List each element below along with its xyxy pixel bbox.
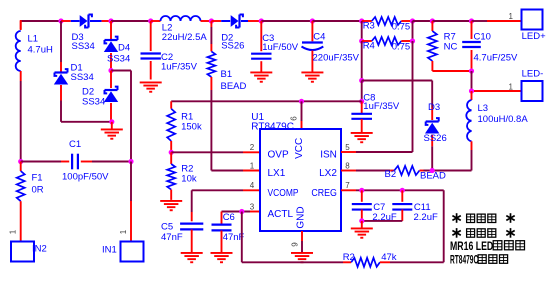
diode D2 (SS34, vertical) xyxy=(104,71,118,122)
svg-text:RT8479C: RT8479C xyxy=(251,121,294,132)
svg-text:SS34: SS34 xyxy=(71,72,94,83)
svg-text:B1: B1 xyxy=(221,69,233,80)
diode D1 (SS34, vertical) xyxy=(54,21,68,101)
capacitor C10 (4.7uF/25V) xyxy=(462,21,481,71)
svg-text:C5: C5 xyxy=(161,222,173,233)
label L1 value 4.7uH xyxy=(28,45,53,56)
wire: CREG corner down to bottom rail xyxy=(443,190,445,262)
svg-text:C10: C10 xyxy=(474,32,491,43)
svg-text:R3: R3 xyxy=(363,21,375,32)
wire: node M right and down to C1 right node xyxy=(111,71,131,162)
pin number 4 (VCOMP) xyxy=(250,181,255,190)
wire: C11 bottom to C7 bottom xyxy=(362,220,403,222)
svg-text:ISN: ISN xyxy=(320,150,337,161)
wire: VCC tap down to U1 pin 6 xyxy=(301,101,303,129)
svg-text:47nF: 47nF xyxy=(161,232,183,243)
pin name ISN xyxy=(320,150,337,161)
node K junction (R4 left) xyxy=(359,38,364,43)
diode D3 (SS26, vertical) xyxy=(425,81,439,171)
svg-text:1: 1 xyxy=(119,229,128,234)
node D junction (L2/D2/B1) xyxy=(209,18,214,23)
pin number 3 (ACTL) xyxy=(250,202,255,211)
wire: rail R7 to C10 xyxy=(432,20,471,22)
pin number 8 (LX2) xyxy=(345,161,350,170)
annotation line 4 (RT8479C circuit) xyxy=(450,255,508,267)
annotation line 2 (* wu shan shuo *) xyxy=(452,228,514,238)
svg-text:0.75: 0.75 xyxy=(392,42,411,53)
svg-text:SS34: SS34 xyxy=(107,54,130,65)
svg-text:B2: B2 xyxy=(385,169,397,180)
label R2 value 47k xyxy=(381,252,397,263)
pin number 1 (LED-) xyxy=(509,83,514,92)
svg-text:ACTL: ACTL xyxy=(268,209,294,220)
wire: LX2 wire from U1 xyxy=(341,170,390,172)
label D1 value SS34 xyxy=(71,72,94,83)
svg-text:SS34: SS34 xyxy=(72,41,95,52)
svg-text:D4: D4 xyxy=(118,42,130,53)
wire: C7 bottom stub to ground xyxy=(361,221,363,228)
svg-text:VCOMP: VCOMP xyxy=(268,188,299,199)
pin number 1 (IN2) xyxy=(8,229,17,234)
svg-text:L3: L3 xyxy=(478,103,489,114)
svg-text:SS26: SS26 xyxy=(424,133,447,144)
connector IN1 terminal xyxy=(121,242,144,262)
ground (input bridge) xyxy=(101,129,123,140)
label C1 xyxy=(69,139,81,150)
resistor R4 (0.75, horizontal) xyxy=(362,37,413,45)
diode D3 (SS34, horizontal) xyxy=(61,15,111,28)
svg-text:5: 5 xyxy=(345,143,350,152)
node F junction (C4 tap) xyxy=(310,18,315,23)
wire: R4 left down to node Q xyxy=(361,41,363,81)
label R4 value 0.75 xyxy=(392,42,411,53)
label R2 value 10k xyxy=(181,174,197,185)
node P junction (LED- / L3 top) xyxy=(469,88,474,93)
resistor R2 (47k, horizontal) xyxy=(343,258,390,267)
svg-text:MR16 LED: MR16 LED xyxy=(450,241,493,253)
node Q junction (D3 branch tap) xyxy=(359,78,364,83)
wire: rail R3 to R7 xyxy=(413,20,433,22)
label C2 value 1uF/35V xyxy=(161,62,198,73)
label U1 part RT8479C xyxy=(251,121,294,132)
label C7 xyxy=(373,202,385,213)
label L3 xyxy=(478,103,489,114)
label C4 value 220uF/35V xyxy=(313,53,360,64)
wire: node Q down to node R xyxy=(361,81,363,102)
label D3 xyxy=(72,32,84,43)
node T junction (OVP / R1 / R2) xyxy=(169,150,174,155)
svg-text:2: 2 xyxy=(250,143,255,152)
label B1 xyxy=(221,69,233,80)
label L3 value 100uH/0.8A xyxy=(478,114,529,125)
pin number 1 (LED+) xyxy=(509,12,514,21)
ground (C2) xyxy=(140,82,162,93)
wire: OVP wire to U1 xyxy=(171,151,260,153)
label LED- xyxy=(522,69,544,80)
label F1 xyxy=(32,172,43,183)
ground (R2) xyxy=(160,200,182,211)
svg-text:F1: F1 xyxy=(32,172,43,183)
node Z junction (C1 left) xyxy=(18,159,23,164)
resistor R1 (150k, vertical) xyxy=(167,101,175,152)
svg-text:1: 1 xyxy=(8,229,17,234)
svg-text:LX2: LX2 xyxy=(319,168,337,179)
pin number 9 (GND) xyxy=(291,242,300,247)
wire: D1 bottom to ground node xyxy=(61,101,112,122)
diode D4 (SS34, vertical) xyxy=(104,21,118,71)
label R4 xyxy=(363,40,375,51)
svg-text:SS34: SS34 xyxy=(82,96,105,107)
ferrite bead B1 xyxy=(207,21,215,90)
label F1 value 0R xyxy=(32,184,44,195)
annotation line 3 (MR16 LED driver) xyxy=(450,241,525,253)
label C8 value 1uF/35V xyxy=(363,101,400,112)
svg-text:IN2: IN2 xyxy=(32,244,47,255)
node I junction (R7 top) xyxy=(430,18,435,23)
svg-text:1uF/50V: 1uF/50V xyxy=(262,42,299,53)
ground (C4) xyxy=(301,72,323,83)
wire: top rail left from L1 corner to node A xyxy=(21,20,61,29)
node L junction (R4 right) xyxy=(410,38,415,43)
wire: C1 right down to IN1 xyxy=(130,162,132,242)
svg-text:9: 9 xyxy=(291,242,300,247)
inductor L2 (22uH/2.5A) xyxy=(151,16,212,21)
node H junction (R3 right) xyxy=(410,18,415,23)
label D3 (SS26) xyxy=(428,102,440,113)
pin name VCOMP xyxy=(268,188,299,199)
node G junction (R3 left) xyxy=(359,18,364,23)
wire: ISN wire from R4 right xyxy=(341,41,413,152)
node Y junction (C7 bottom) xyxy=(359,218,364,223)
svg-text:0.75: 0.75 xyxy=(392,22,411,33)
pin number 5 (ISN) xyxy=(345,143,350,152)
label L2 xyxy=(162,23,173,34)
pin name LX1 xyxy=(268,168,286,179)
svg-text:VCC: VCC xyxy=(294,138,305,159)
wire: ACTL wire to U1 xyxy=(222,211,261,213)
svg-text:BEAD: BEAD xyxy=(221,81,247,92)
resistor R2 (10k, vertical) xyxy=(167,152,175,200)
wire: B1 bottom down to LX1 corner xyxy=(210,90,212,171)
node J junction (C10 top) xyxy=(469,18,474,23)
label B2 xyxy=(385,169,397,180)
svg-text:LX1: LX1 xyxy=(268,168,286,179)
node M junction (D4 bottom / D2 top) xyxy=(108,68,113,73)
wire: R3 right down to R4 right xyxy=(412,21,414,41)
svg-text:1uF/35V: 1uF/35V xyxy=(363,101,400,112)
label C11 value 2.2uF xyxy=(414,212,438,223)
node C junction (C2 tap) xyxy=(148,18,153,23)
svg-text:150k: 150k xyxy=(181,122,202,133)
label L2 value 22uH/2.5A xyxy=(162,32,208,43)
connector LED+ terminal xyxy=(522,10,543,30)
svg-text:R4: R4 xyxy=(363,40,375,51)
label C4 xyxy=(313,32,325,43)
svg-text:NC: NC xyxy=(444,42,458,53)
inductor L3 (100uH/0.8A) xyxy=(466,91,471,150)
label IN1 xyxy=(102,244,117,255)
svg-text:D3: D3 xyxy=(428,102,440,113)
svg-text:100pF/50V: 100pF/50V xyxy=(62,172,109,183)
node N junction (D1/D2 ground) xyxy=(109,119,114,124)
diode D2 (SS26, horizontal) xyxy=(211,15,261,28)
node A junction (L1/D1/D3 top) xyxy=(58,18,63,23)
label C8 xyxy=(363,92,375,103)
pin number 1 (LX1) xyxy=(250,161,255,170)
svg-text:10k: 10k xyxy=(181,174,197,185)
svg-text:7: 7 xyxy=(345,181,350,190)
capacitor C4 (220uF/35V, polarized) xyxy=(302,21,324,72)
capacitor C11 (2.2uF) xyxy=(392,190,412,221)
wire: rail C4 to R3 xyxy=(312,20,361,22)
pin number 1 (IN1) xyxy=(119,229,128,234)
svg-text:C1: C1 xyxy=(69,139,81,150)
svg-text:2.2uF: 2.2uF xyxy=(414,212,438,223)
svg-text:L1: L1 xyxy=(28,34,39,45)
label C3 value 1uF/50V xyxy=(262,42,299,53)
wire: rail C3 to C4 xyxy=(261,20,312,22)
wire: VCOMP wire to U1 xyxy=(192,189,260,191)
wire: CREG wire from U1 xyxy=(341,189,444,191)
wire: ACTL node down to bottom rail xyxy=(241,212,243,263)
wire: node O down to LED- node xyxy=(471,71,473,91)
wire: U1 GND pin down xyxy=(301,231,303,252)
op-amp U1 RT8479C body xyxy=(260,129,341,231)
label C2 xyxy=(161,52,173,63)
svg-text:RT8479C: RT8479C xyxy=(450,255,478,267)
label C10 value 4.7uF/25V xyxy=(474,53,518,64)
svg-text:4: 4 xyxy=(250,181,255,190)
wire: L3 bottom to LX2 line xyxy=(471,150,473,171)
node B junction (D3/D4 top) xyxy=(108,18,113,23)
svg-text:C6: C6 xyxy=(223,212,235,223)
svg-text:4.7uF/25V: 4.7uF/25V xyxy=(474,53,518,64)
ground (C8) xyxy=(351,132,373,143)
label R1 value 150k xyxy=(181,122,202,133)
capacitor C8 (1uF/35V) xyxy=(351,101,372,132)
svg-text:100uH/0.8A: 100uH/0.8A xyxy=(478,114,529,125)
wire: LX1 wire to U1 xyxy=(211,170,260,172)
label C5 value 47nF xyxy=(161,232,183,243)
ground (C5) xyxy=(181,252,203,263)
svg-text:LED+: LED+ xyxy=(522,31,546,42)
pin name ACTL xyxy=(268,209,294,220)
svg-text:1uF/35V: 1uF/35V xyxy=(161,62,198,73)
label C5 xyxy=(161,222,173,233)
capacitor C5 (47nF) xyxy=(180,190,203,252)
label R3 xyxy=(363,21,375,32)
svg-text:4.7uH: 4.7uH xyxy=(28,45,53,56)
pin number 2 (OVP) xyxy=(250,143,255,152)
pin number 7 (CREG) xyxy=(345,181,350,190)
wire: VCC rail from R1 top to node R xyxy=(171,100,362,102)
svg-text:1: 1 xyxy=(509,12,514,21)
label D2 value SS34 xyxy=(82,96,105,107)
svg-text:R2: R2 xyxy=(343,252,355,263)
label R1 xyxy=(181,111,193,122)
connector LED- terminal xyxy=(522,81,543,101)
node X junction (C11 top) xyxy=(400,188,405,193)
svg-text:47k: 47k xyxy=(381,252,397,263)
label IN2 xyxy=(32,244,47,255)
wire: rail node B to L2 xyxy=(111,20,151,22)
svg-text:6: 6 xyxy=(290,116,299,121)
label C6 xyxy=(223,212,235,223)
capacitor C1 (100pF/50V) xyxy=(21,154,131,170)
wire: L1 bottom down to C1 left node xyxy=(20,81,22,162)
label D2 value SS26 xyxy=(221,41,244,52)
capacitor C7 (2.2uF) xyxy=(352,190,372,221)
label R2 (10k) xyxy=(181,164,193,175)
svg-text:LED-: LED- xyxy=(522,69,544,80)
label R2 (47k) xyxy=(343,252,355,263)
label D4 xyxy=(118,42,130,53)
wire: bottom rail right section xyxy=(390,261,444,263)
node E junction (C3 tap) xyxy=(259,18,264,23)
capacitor C6 (47nF) xyxy=(212,212,232,253)
ground (C6) xyxy=(211,252,233,263)
label B1 value BEAD xyxy=(221,81,247,92)
svg-text:1: 1 xyxy=(250,161,255,170)
pin name GND xyxy=(296,206,307,228)
fuse F1 (0R) xyxy=(17,162,25,242)
label C11 xyxy=(414,202,431,213)
svg-text:0R: 0R xyxy=(32,184,44,195)
label C3 xyxy=(262,33,274,44)
label C6 value 47nF xyxy=(223,232,245,243)
node S junction (VCC pin tap) xyxy=(299,99,304,104)
wire: node N stub to ground xyxy=(111,122,113,129)
node O junction (R7/C10 bottom) xyxy=(469,68,474,73)
label B2 value BEAD xyxy=(420,171,446,182)
resistor R3 (0.75, horizontal) xyxy=(362,17,413,25)
node AA junction (C1 right) xyxy=(128,159,133,164)
svg-text:OVP: OVP xyxy=(268,150,289,161)
pin name VCC xyxy=(294,138,305,159)
svg-text:220uF/35V: 220uF/35V xyxy=(313,53,360,64)
label D3 value SS26 xyxy=(424,133,447,144)
ground (C3) xyxy=(250,72,272,83)
label C7 value 2.2uF xyxy=(372,212,396,223)
node W junction (C7 top) xyxy=(359,188,364,193)
wire: LED- pin xyxy=(474,90,522,92)
resistor R7 (NC, vertical) xyxy=(428,21,437,71)
wire: bottom rail left section xyxy=(242,261,343,263)
svg-text:GND: GND xyxy=(296,206,307,228)
wire: R7 bottom to C10 bottom xyxy=(432,70,471,72)
capacitor C3 (1uF/50V) xyxy=(251,21,271,72)
svg-text:SS26: SS26 xyxy=(221,41,244,52)
pin number 6 (VCC) xyxy=(290,116,299,121)
label L1 xyxy=(28,34,39,45)
label LED+ xyxy=(522,31,546,42)
label U1 xyxy=(251,112,264,123)
ground (C7/C11) xyxy=(351,228,373,239)
svg-text:C4: C4 xyxy=(313,32,325,43)
wire: R3 left down to R4 left xyxy=(361,21,363,41)
node V junction (D3 bottom / LX2) xyxy=(430,168,435,173)
ferrite bead B2 xyxy=(390,166,423,175)
connector IN2 terminal xyxy=(11,242,34,262)
pin name OVP xyxy=(268,150,289,161)
label D4 value SS34 xyxy=(107,54,130,65)
inductor L1 (4.7uH) xyxy=(16,21,21,81)
label R7 value NC xyxy=(444,42,458,53)
ground (U1 GND) xyxy=(291,252,313,263)
label D2 xyxy=(82,87,94,98)
label D2 xyxy=(221,32,233,43)
svg-text:3: 3 xyxy=(250,202,255,211)
svg-text:CREG: CREG xyxy=(311,188,337,199)
capacitor C2 (1uF/35V) xyxy=(141,21,161,80)
label D1 xyxy=(71,62,83,73)
label R7 xyxy=(444,32,456,43)
svg-text:1: 1 xyxy=(509,83,514,92)
pin name LX2 xyxy=(319,168,337,179)
wire: node Q right to D3 top xyxy=(362,80,433,82)
svg-text:IN1: IN1 xyxy=(102,244,117,255)
svg-text:8: 8 xyxy=(345,161,350,170)
pin name CREG xyxy=(311,188,337,199)
node R junction (VCC / C8) xyxy=(359,99,364,104)
label C10 xyxy=(474,32,491,43)
label R3 value 0.75 xyxy=(392,22,411,33)
wire: rail to LED+ pin xyxy=(472,20,522,22)
label D3 value SS34 xyxy=(72,41,95,52)
annotation line 1 (* quan jian rong *) xyxy=(452,213,514,223)
wire: B2 to D3/L3 xyxy=(424,170,472,172)
label C1 value 100pF/50V xyxy=(62,172,109,183)
svg-text:22uH/2.5A: 22uH/2.5A xyxy=(162,32,208,43)
node U junction (ACTL) xyxy=(239,209,244,214)
